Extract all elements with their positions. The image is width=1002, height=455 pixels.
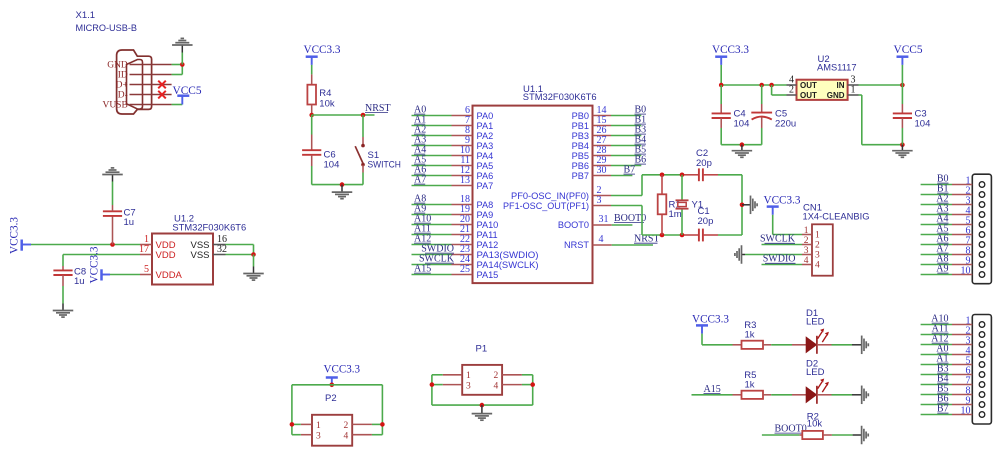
svg-text:PB5: PB5 [572, 151, 589, 161]
svg-text:1: 1 [804, 226, 809, 236]
wire net B1 [611, 125, 641, 127]
wire bottom rail [312, 184, 363, 186]
capacitor C8 [62, 266, 64, 271]
ground right of D2 [852, 394, 862, 396]
svg-text:D+: D+ [116, 81, 128, 91]
U1.1 pin 25 PA15 [452, 274, 473, 276]
junction crystal top R1 [660, 173, 665, 178]
ground above X1.1 [181, 45, 183, 53]
wire net A4 [412, 155, 452, 157]
wire output rail [721, 84, 786, 86]
wire S1 top [362, 115, 364, 137]
svg-text:1k: 1k [745, 379, 755, 390]
wire ID riser [172, 74, 183, 76]
svg-text:32: 32 [217, 244, 227, 255]
wire P2 left [292, 423, 301, 425]
svg-text:25: 25 [460, 264, 470, 275]
wire net A0 to J2 [921, 354, 952, 356]
svg-text:PA5: PA5 [477, 161, 494, 171]
svg-text:5: 5 [144, 264, 149, 275]
capacitor C5 polarized [761, 85, 763, 104]
J2 pin 1 stub [952, 324, 972, 326]
J1 pin 3 circle [979, 202, 985, 208]
wire A15 to R5 [692, 394, 733, 396]
wire net B3 [611, 135, 641, 137]
svg-text:ID: ID [118, 71, 128, 81]
resistor R4 [311, 74, 313, 84]
svg-text:20p: 20p [696, 158, 712, 169]
svg-text:PA0: PA0 [477, 111, 494, 121]
ground below C3 [901, 145, 903, 151]
P1 pin 2 stub [502, 374, 522, 376]
svg-text:1: 1 [316, 421, 321, 431]
svg-text:2: 2 [815, 241, 820, 251]
CN1 pin 1 [802, 234, 812, 236]
svg-text:PA11: PA11 [477, 230, 498, 240]
wire net A1 to J2 [921, 364, 952, 366]
svg-text:104: 104 [915, 118, 931, 129]
U1.2 pin 16 VSS [213, 244, 226, 246]
svg-text:3: 3 [815, 251, 820, 261]
wire C6 to bottom [311, 166, 313, 185]
wire net SWCLK [762, 244, 803, 246]
wire VSS to ground [253, 255, 255, 267]
U1.1 pin 2 PF0-OSC_IN(PF0) [593, 195, 612, 197]
wire net SWCLK [412, 264, 452, 266]
svg-text:PA13(SWDIO): PA13(SWDIO) [477, 250, 539, 260]
svg-text:PA4: PA4 [477, 151, 494, 161]
CN1 pin 4 [802, 264, 812, 266]
U1.1 pin 20 PA10 [452, 224, 473, 226]
J1 pin 6 stub [952, 234, 972, 236]
junction P2 VCC [330, 383, 335, 388]
svg-text:1u: 1u [74, 276, 85, 287]
svg-text:VCC3.3: VCC3.3 [764, 194, 801, 206]
wire P2 top [292, 384, 383, 386]
ic U1.2 body [152, 234, 213, 285]
svg-text:4: 4 [494, 381, 499, 391]
ground right of D1 [852, 344, 862, 346]
svg-text:1m: 1m [669, 209, 682, 220]
wire net A2 [412, 135, 452, 137]
svg-text:VSS: VSS [190, 250, 209, 261]
junction C3 ground [900, 142, 905, 147]
svg-text:PA9: PA9 [477, 210, 494, 220]
connector X1.1 inner tongue [127, 60, 143, 110]
resistor R3 [733, 344, 742, 346]
svg-text:PA12: PA12 [477, 240, 499, 250]
wire net A9 [412, 214, 452, 216]
U1.1 pin 9 PA3 [452, 145, 473, 147]
wire GND to junction [172, 64, 183, 66]
wire crystal bottom rail [642, 234, 683, 236]
U1.2 pin 5 VDDA [140, 274, 152, 276]
capacitor C4 [720, 85, 722, 104]
capacitor C1 series [683, 234, 698, 236]
power flag VCC3.3 above R4 [306, 55, 318, 58]
wire pin3 to VCC5 [859, 84, 903, 86]
svg-text:PB3: PB3 [572, 131, 589, 141]
wire S1 bottom [362, 173, 364, 185]
svg-text:PB0: PB0 [572, 111, 589, 121]
svg-text:PB1: PB1 [572, 121, 589, 131]
power flag VCC3.3 regulator output [715, 55, 727, 58]
resistor R1 [661, 175, 663, 195]
J1 pin 1 stub [952, 184, 972, 186]
wire net A8 to J1 [921, 264, 952, 266]
wire BOOT0 to R2 [762, 434, 800, 436]
svg-text:PB4: PB4 [572, 141, 589, 151]
J2 pin 3 circle [979, 342, 985, 348]
wire R5 to D2 [771, 394, 792, 396]
svg-text:4: 4 [804, 256, 809, 266]
wire R2 to ground [832, 434, 853, 436]
P2 pin 2 stub [352, 423, 372, 425]
wire D1 to ground [832, 344, 853, 346]
svg-text:MICRO-USB-B: MICRO-USB-B [76, 23, 138, 34]
wire P1 left [432, 374, 443, 376]
junction P1 left [430, 382, 435, 387]
wire VCC3.3 down [720, 65, 722, 85]
svg-text:1X4-CLEANBIG: 1X4-CLEANBIG [803, 212, 870, 223]
wire net A6 to J1 [921, 244, 952, 246]
U1.1 pin 26 PB3 [593, 135, 612, 137]
wire pin2 branch [771, 85, 773, 95]
svg-text:BOOT0: BOOT0 [558, 220, 589, 230]
wire to ground [181, 53, 183, 65]
svg-text:1: 1 [466, 371, 471, 381]
svg-text:2: 2 [804, 236, 809, 246]
svg-text:13: 13 [460, 175, 470, 186]
wire down to C8 [62, 255, 64, 267]
wire net A15 [412, 274, 452, 276]
svg-text:STM32F030K6T6: STM32F030K6T6 [523, 92, 597, 103]
J2 pin 4 circle [979, 352, 985, 358]
svg-text:PA14(SWCLK): PA14(SWCLK) [477, 260, 539, 270]
svg-text:PA7: PA7 [477, 181, 494, 191]
wire net B7 [611, 175, 632, 177]
U1.2 pin 1 VDD [140, 244, 152, 246]
svg-text:10k: 10k [807, 419, 823, 430]
U2 pin 3 [848, 84, 859, 86]
svg-text:PA3: PA3 [477, 141, 494, 151]
svg-text:PB6: PB6 [572, 161, 589, 171]
U1.1 pin 15 PB1 [593, 125, 612, 127]
svg-text:OUT: OUT [800, 81, 817, 90]
led D1 [792, 344, 806, 346]
junction crystal ground [740, 203, 745, 208]
J2 pin 9 circle [979, 402, 985, 408]
J1 pin 9 circle [979, 262, 985, 268]
wire net A3 to J1 [921, 214, 952, 216]
X1.1 pin GND [130, 64, 172, 66]
wire net B0 to J1 [921, 184, 952, 186]
capacitor C7 [112, 216, 114, 244]
power flag VCC5 on VUSB [181, 96, 183, 105]
wire CN1 pin3 to ground [745, 254, 802, 256]
P2 pin 3 stub [301, 434, 312, 436]
wire PF1 to crystal [611, 205, 642, 207]
ground below C8 [62, 304, 64, 311]
CN1 pin 3 [802, 254, 812, 256]
J1 pin 8 circle [979, 252, 985, 258]
U1.1 pin 13 PA7 [452, 185, 473, 187]
junction NRST/S1 node [361, 113, 366, 118]
wire top rail right [718, 174, 742, 176]
wire VSS pin16 [226, 244, 254, 246]
connector CN1 body [812, 224, 833, 275]
J2 pin 9 stub [952, 404, 972, 406]
svg-text:4: 4 [599, 234, 604, 245]
svg-text:17: 17 [139, 244, 149, 255]
svg-text:4: 4 [343, 431, 348, 441]
svg-text:VDDA: VDDA [156, 270, 183, 281]
capacitor C2 series [683, 174, 698, 176]
wire net A0 [412, 115, 452, 117]
no-connect X on D+ [158, 81, 166, 89]
wire net A2 to J1 [921, 204, 952, 206]
U2 pin 4 [787, 84, 797, 86]
wire D2 to ground [832, 394, 853, 396]
wire PF1 riser [641, 206, 643, 236]
wire net B5 [611, 155, 641, 157]
junction VSS node [251, 252, 256, 257]
wire net B4 to J2 [921, 384, 952, 386]
J2 pin 8 circle [979, 392, 985, 398]
U1.1 pin 3 PF1-OSC_OUT(PF1) [593, 205, 612, 207]
svg-text:3: 3 [804, 246, 809, 256]
svg-text:PA10: PA10 [477, 220, 499, 230]
svg-text:VCC3.3: VCC3.3 [712, 44, 749, 56]
U1.1 pin 22 PA12 [452, 244, 473, 246]
U1.1 pin 14 PB0 [593, 115, 612, 117]
svg-text:VCC3.3: VCC3.3 [89, 246, 101, 283]
svg-text:Y1: Y1 [692, 200, 704, 211]
svg-text:VCC5: VCC5 [894, 44, 923, 56]
J2 pin 7 stub [952, 384, 972, 386]
svg-text:10k: 10k [319, 98, 335, 109]
junction P1 right [530, 382, 535, 387]
wire net A11 [412, 234, 452, 236]
power flag VCC3.3 at P2 [326, 376, 338, 379]
wire net B7 to J2 [921, 414, 952, 416]
capacitor C3 [901, 85, 903, 104]
J2 pin 2 circle [979, 332, 985, 338]
P2 pin 4 stub [352, 434, 372, 436]
J1 pin 9 stub [952, 264, 972, 266]
svg-text:P2: P2 [325, 393, 337, 404]
wire net A10 to J2 [921, 324, 952, 326]
svg-text:GND: GND [107, 61, 128, 71]
svg-text:SWITCH: SWITCH [368, 160, 402, 171]
ground below P1 [481, 405, 483, 414]
J1 pin 2 circle [979, 192, 985, 198]
U2 pin 1 [848, 94, 859, 96]
wire net A1 [412, 125, 452, 127]
wire P1 bottom [432, 404, 533, 406]
ground right of crystal [742, 204, 751, 206]
wire to C6 [311, 115, 313, 135]
J1 pin 5 circle [979, 222, 985, 228]
wire VUSB [172, 104, 183, 106]
wire net A12 [412, 244, 452, 246]
svg-text:VCC3.3: VCC3.3 [692, 313, 729, 325]
svg-text:2: 2 [789, 85, 794, 96]
svg-text:PF1-OSC_OUT(PF1): PF1-OSC_OUT(PF1) [503, 201, 589, 211]
junction P2 right [380, 422, 385, 427]
wire C7 to ground [112, 182, 114, 206]
svg-text:STM32F030K6T6: STM32F030K6T6 [172, 222, 246, 233]
J2 pin 1 circle [979, 322, 985, 328]
J1 pin 6 circle [979, 232, 985, 238]
J1 pin 4 circle [979, 212, 985, 218]
svg-text:10: 10 [961, 406, 971, 417]
J1 pin 7 circle [979, 242, 985, 248]
junction VCC5 [900, 83, 905, 88]
wire NRST horizontal [312, 114, 375, 116]
svg-text:AMS1117: AMS1117 [817, 63, 857, 74]
X1.1 pin D- [130, 94, 172, 96]
wire VCC3.3 to VDDA [110, 274, 140, 276]
power flag VCC3.3 at D1 [696, 324, 708, 327]
J1 pin 4 stub [952, 214, 972, 216]
U1.1 pin 4 NRST [593, 244, 612, 246]
wire net A9 to J1 [921, 274, 952, 276]
J1 pin 10 stub [952, 274, 972, 276]
J2 pin 10 stub [952, 414, 972, 416]
svg-text:PA15: PA15 [477, 270, 499, 280]
svg-text:VCC3.3: VCC3.3 [9, 217, 21, 254]
svg-text:VCC3.3: VCC3.3 [304, 44, 341, 56]
svg-text:PA2: PA2 [477, 131, 494, 141]
jumper P1 body [462, 365, 502, 395]
junction bottom node [340, 182, 345, 187]
ground left of CN1 [742, 254, 746, 256]
J2 pin 2 stub [952, 334, 972, 336]
junction R4/C6 node [309, 113, 314, 118]
wire VDD pin17 [63, 254, 140, 256]
led D2 [792, 394, 806, 396]
J2 pin 3 stub [952, 344, 972, 346]
svg-text:D-: D- [118, 91, 128, 101]
no-connect X on D- [158, 91, 166, 99]
ground below C4 C5 [741, 145, 743, 151]
J1 pin 7 stub [952, 244, 972, 246]
svg-text:1u: 1u [124, 217, 135, 228]
junction caps ground [740, 142, 745, 147]
ic U2 body [797, 80, 848, 100]
J2 pin 8 stub [952, 394, 972, 396]
wire net A10 [412, 224, 452, 226]
X1.1 pin D+ [130, 84, 172, 86]
CN1 pin 2 [802, 244, 812, 246]
svg-text:3: 3 [597, 195, 602, 206]
wire net A5 [412, 165, 452, 167]
wire net B0 [611, 115, 641, 117]
switch S1 [362, 137, 364, 144]
wire net B5 to J2 [921, 394, 952, 396]
ic U1.1 body [473, 106, 593, 284]
svg-text:X1.1: X1.1 [76, 10, 96, 21]
junction C5 [759, 83, 764, 88]
U1.1 pin 19 PA9 [452, 214, 473, 216]
svg-text:IN: IN [837, 81, 845, 90]
svg-text:20p: 20p [698, 216, 714, 227]
ground below U1.2 VSS [253, 267, 255, 274]
J1 pin 5 stub [952, 224, 972, 226]
junction P2 left [290, 422, 295, 427]
resistor R5 [733, 394, 742, 396]
wire pin1 GND route [859, 94, 862, 96]
junction GND node [180, 62, 185, 67]
J2 pin 5 circle [979, 362, 985, 368]
U1.1 pin 21 PA11 [452, 234, 473, 236]
U1.1 pin 7 PA1 [452, 125, 473, 127]
ground below S1 [341, 185, 343, 193]
U1.1 pin 8 PA2 [452, 135, 473, 137]
J2 pin 10 circle [979, 412, 985, 418]
svg-text:GND: GND [827, 91, 845, 100]
P1 pin 3 stub [443, 384, 463, 386]
wire crystal top rail [642, 174, 683, 176]
U1.2 pin 32 VSS [213, 254, 226, 256]
J2 pin 4 stub [952, 354, 972, 356]
connector X1.1 shell outline [117, 50, 152, 114]
wire P1 right [522, 374, 533, 376]
svg-text:PA6: PA6 [477, 171, 494, 181]
wire bottom rail right [718, 234, 742, 236]
capacitor C6 [311, 135, 313, 151]
wire net B3 to J2 [921, 374, 952, 376]
J2 pin 5 stub [952, 364, 972, 366]
wire PF0 riser [641, 175, 643, 196]
U1.1 pin 12 PA6 [452, 175, 473, 177]
svg-text:VCC5: VCC5 [173, 85, 202, 97]
J1 pin 3 stub [952, 204, 972, 206]
J1 pin 2 stub [952, 194, 972, 196]
wire R3 to D1 [771, 344, 792, 346]
svg-text:2: 2 [494, 371, 499, 381]
wire net A5 to J1 [921, 234, 952, 236]
svg-text:220u: 220u [775, 118, 796, 129]
U1.1 pin 23 PA13(SWDIO) [452, 254, 473, 256]
J1 pin 1 circle [979, 182, 985, 188]
P1 pin 1 stub [443, 374, 463, 376]
U1.1 pin 6 PA0 [452, 115, 473, 117]
wire net SWDIO [762, 264, 803, 266]
svg-text:PF0-OSC_IN(PF0): PF0-OSC_IN(PF0) [511, 191, 589, 201]
U1.1 pin 18 PA8 [452, 204, 473, 206]
junction crystal bottom R1 [660, 233, 665, 238]
U1.1 pin 24 PA14(SWCLK) [452, 264, 473, 266]
wire crystal right side [741, 175, 743, 235]
svg-text:30: 30 [597, 165, 607, 176]
wire net A4 to J1 [921, 224, 952, 226]
wire caps bottom rail [721, 144, 762, 146]
J1 pin 10 circle [979, 272, 985, 278]
svg-text:3: 3 [316, 431, 321, 441]
wire VCC3.3 to VDD pin1 [31, 244, 140, 246]
crystal Y1 [681, 175, 683, 200]
header J2 body [972, 315, 991, 425]
U1.1 pin 31 BOOT0 [593, 224, 612, 226]
wire net A11 to J2 [921, 334, 952, 336]
wire VCC3.3 to R4 [311, 65, 313, 75]
J2 pin 7 circle [979, 382, 985, 388]
wire VSS pin32 [226, 254, 254, 256]
junction crystal top Y1 [680, 173, 685, 178]
svg-text:1: 1 [815, 231, 820, 241]
